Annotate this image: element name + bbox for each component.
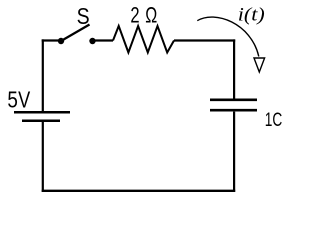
switch S [58,3,96,44]
wire: right vertical lower segment [233,112,235,192]
capacitor 1C [210,100,282,131]
wire: right vertical upper segment [233,39,235,98]
svg-text:S: S [77,3,90,29]
wire: bottom horizontal segment [42,190,236,192]
wire: left vertical lower segment [42,122,44,192]
svg-text:i(t): i(t) [238,5,265,26]
wire: resistor to top-right corner [174,39,235,41]
svg-text:V: V [18,87,31,113]
wire: left vertical upper segment [42,39,44,111]
resistor 2 ohm [113,2,174,52]
wire: top-left horizontal segment [42,39,59,41]
battery 5V [7,87,70,121]
svg-text:2: 2 [130,2,139,27]
svg-text:5: 5 [7,87,18,113]
current arrow i(t) [197,5,264,72]
svg-text:1C: 1C [265,109,283,131]
wire: switch to resistor [93,39,114,41]
svg-text:Ω: Ω [145,2,157,27]
